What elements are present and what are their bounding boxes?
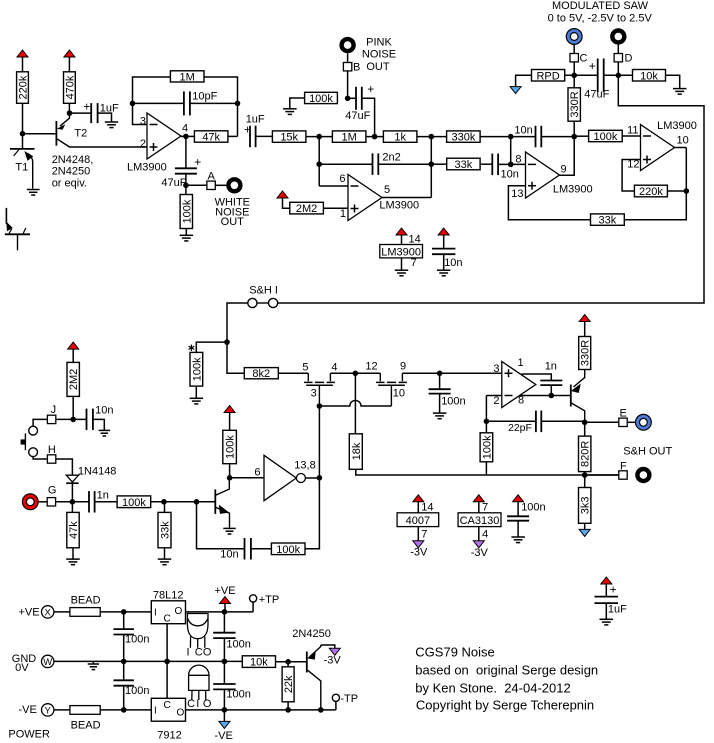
wire to ground symbol	[92, 661, 94, 663]
resistor 1M pink filter	[332, 131, 366, 144]
capacitor 10n timing	[245, 538, 251, 560]
svg-text:I: I	[187, 647, 190, 659]
resistor 2M2	[290, 202, 324, 215]
node +V raw junction	[121, 609, 127, 615]
node G pad	[47, 498, 55, 506]
switch momentary	[21, 426, 38, 456]
wire 10k to ground	[666, 75, 680, 88]
node between FETs	[353, 371, 359, 377]
svg-text:15k: 15k	[280, 132, 298, 144]
svg-text:S&H I: S&H I	[249, 285, 278, 297]
capacitor 22pF	[536, 411, 541, 433]
inverter gate 4007	[264, 455, 305, 500]
svg-text:47uF: 47uF	[345, 110, 370, 122]
label star	[189, 345, 195, 351]
svg-text:G: G	[48, 485, 57, 497]
wire U1 output to 47k	[181, 135, 195, 137]
resistor 22k	[282, 667, 295, 702]
svg-text:I: I	[154, 608, 157, 619]
svg-text:33k: 33k	[599, 215, 617, 227]
svg-text:OUT: OUT	[221, 216, 245, 228]
wire node to T2 base	[23, 133, 56, 135]
node D pad	[614, 54, 622, 62]
connector white noise out jack	[226, 177, 242, 193]
svg-text:12: 12	[627, 159, 639, 171]
resistor RPD	[532, 70, 565, 83]
diode 1N4148	[66, 475, 78, 483]
svg-text:1M: 1M	[180, 71, 195, 83]
svg-text:W: W	[43, 657, 52, 668]
node 100n hold cap	[437, 371, 443, 377]
transistor T2 2N4250 PNP	[56, 113, 147, 147]
svg-text:POWER: POWER	[8, 728, 50, 740]
resistor 1M feedback	[170, 71, 204, 84]
wire node to 33k	[431, 163, 446, 165]
resistor 330k	[447, 131, 481, 144]
wire 330k to 10n	[480, 136, 535, 138]
wire node C down	[573, 62, 575, 75]
svg-text:E: E	[620, 408, 627, 420]
wire pin 12 to 220k	[622, 160, 640, 192]
svg-text:1N4148: 1N4148	[78, 465, 117, 477]
resistor 100k white noise load	[180, 195, 193, 229]
resistor 220k	[17, 72, 30, 104]
wire switch to J pad	[33, 419, 47, 426]
power arrow CA3130	[473, 495, 484, 502]
wire rail to 10k	[241, 660, 243, 662]
wire E pad to jack	[627, 421, 635, 423]
resistor 47k	[194, 131, 228, 144]
ground 10n J	[99, 430, 110, 436]
transistor T1 (noise junction)	[10, 149, 35, 189]
wire node C to 330R	[573, 75, 575, 88]
svg-text:100n: 100n	[125, 634, 149, 646]
wire arrow to 330R	[584, 322, 586, 337]
resistor 33k feedback	[591, 214, 625, 227]
wire RPD to 47uF	[565, 74, 598, 76]
svg-text:BEAD: BEAD	[71, 719, 101, 731]
svg-text:100k: 100k	[276, 544, 300, 556]
svg-text:-3V: -3V	[471, 547, 489, 559]
wire arrow to rail	[224, 604, 226, 612]
svg-text:100n: 100n	[125, 685, 149, 697]
wire +VE to 100n 2	[223, 612, 225, 633]
wire 820R to F line	[584, 472, 586, 475]
power arrow for 2M2	[277, 191, 288, 198]
svg-text:-VE: -VE	[215, 730, 233, 742]
wire 15k to 1M	[306, 136, 333, 138]
wire jack D to node D	[617, 45, 619, 54]
power arrow 10n decoupling	[438, 228, 449, 235]
resistor 100k timing	[271, 543, 305, 556]
regulator 78L12	[151, 601, 185, 625]
svg-text:47uF: 47uF	[584, 88, 609, 100]
svg-text:7912: 7912	[157, 729, 181, 741]
svg-text:330R: 330R	[580, 340, 592, 366]
node A junction	[183, 183, 189, 189]
svg-text:3: 3	[311, 387, 317, 399]
wire arrow to 100k	[229, 413, 231, 431]
ground 10n decoupling	[437, 270, 451, 276]
test point +TP	[250, 595, 257, 602]
svg-text:S&H OUT: S&H OUT	[623, 446, 672, 458]
node E pad	[619, 418, 627, 426]
wire to 22pF	[486, 420, 536, 422]
wire 1k to 330k	[417, 136, 447, 138]
svg-text:100k: 100k	[191, 357, 203, 381]
svg-text:14: 14	[421, 501, 433, 513]
connector X screw terminal	[42, 606, 54, 619]
wire 10n to ground	[93, 419, 104, 430]
svg-text:LM3900: LM3900	[127, 161, 167, 173]
svg-text:470k: 470k	[64, 75, 76, 99]
wire D to S&H link long run	[278, 75, 704, 303]
wire arrow to 470k	[68, 57, 70, 72]
wire gnd to 100n 4	[223, 661, 225, 684]
ground 47k	[66, 559, 80, 565]
svg-text:47k: 47k	[68, 521, 80, 539]
svg-text:22k: 22k	[283, 675, 295, 693]
negative supply arrow 3k3	[579, 529, 590, 536]
svg-text:or eqiv.: or eqiv.	[52, 177, 87, 189]
svg-text:A: A	[208, 170, 216, 182]
node B junction	[345, 96, 351, 102]
node 22pF left	[484, 419, 490, 425]
wire arrow to 10n	[443, 235, 445, 249]
wire down to pin 6 of U2	[318, 137, 320, 186]
svg-text:2N4248,: 2N4248,	[52, 154, 94, 166]
wire node D down	[617, 62, 619, 75]
svg-text:10n: 10n	[444, 257, 462, 269]
node 1n/pin8 junction	[549, 393, 555, 399]
node B pad	[343, 63, 351, 71]
wire to -TP	[335, 702, 337, 710]
svg-text:820R: 820R	[580, 441, 592, 467]
svg-text:78L12: 78L12	[153, 590, 184, 602]
ferrite bead top	[70, 608, 100, 617]
resistor 100k to pin 11	[589, 130, 623, 143]
node 220k/output junction	[684, 188, 690, 194]
svg-text:14: 14	[409, 233, 421, 245]
wire 33k to pin8 10n	[480, 163, 492, 165]
wire node to 100n hold	[439, 373, 441, 389]
svg-text:1M: 1M	[342, 132, 357, 144]
wire arrow to block	[401, 235, 403, 245]
svg-text:D: D	[625, 52, 633, 64]
svg-text:12: 12	[365, 361, 377, 373]
TO-92 outline 78L12	[187, 614, 208, 648]
svg-text:10n: 10n	[501, 169, 519, 181]
power arrow 100n decoupling 2	[513, 495, 524, 502]
node T1 collector junction	[20, 131, 26, 137]
wire ground rail	[54, 660, 243, 662]
wire 10n to 330R node	[541, 136, 574, 138]
op-amp U2 LM3900 pink noise	[348, 175, 382, 221]
op-amp U5 CA3130 buffer	[502, 362, 536, 408]
wire between link pads	[257, 302, 269, 304]
wire 33k to ground	[164, 548, 166, 559]
node 10n junction	[508, 134, 514, 140]
power arrow 2M2 input	[68, 342, 79, 349]
wire 47uF to 1M/1k node	[362, 98, 375, 136]
wire FET1 drain to FET2 source	[330, 372, 380, 374]
node 2n2 left	[316, 161, 322, 167]
svg-text:C: C	[164, 700, 171, 711]
wire 100k top	[485, 421, 487, 433]
wire gnd to 100n 3	[123, 661, 125, 680]
ground pink load	[283, 109, 297, 115]
svg-text:10pF: 10pF	[192, 90, 217, 102]
wire 100k to ground	[290, 98, 305, 108]
svg-text:100k: 100k	[481, 435, 493, 459]
svg-text:2N4250: 2N4250	[292, 628, 331, 640]
svg-text:33k: 33k	[160, 521, 172, 539]
negative supply arrow RPD	[510, 87, 521, 94]
svg-text:+: +	[83, 99, 90, 113]
svg-text:BEAD: BEAD	[71, 594, 101, 606]
wire FET node down to 18k	[354, 373, 356, 434]
svg-text:J: J	[51, 404, 57, 416]
resistor 820R	[579, 436, 592, 472]
ground at 1uF	[105, 122, 118, 128]
node gnd junction 3	[222, 659, 228, 665]
wire emitter to -3V arrow	[321, 645, 335, 648]
svg-text:10n: 10n	[95, 405, 113, 417]
svg-text:2: 2	[493, 395, 499, 407]
node 15k/1M junction	[316, 134, 322, 140]
svg-text:+TP: +TP	[259, 594, 279, 606]
wire 100n 2 to gnd	[223, 638, 225, 661]
wire 100k to ground	[185, 229, 187, 236]
wire 78L12 to +TP	[186, 611, 254, 613]
svg-text:Copyright by Serge Tcherepnin: Copyright by Serge Tcherepnin	[416, 698, 594, 713]
wire 22pF to E node	[541, 420, 584, 422]
wire 47uF to 100k	[185, 174, 187, 195]
wire 10pF to right node	[190, 102, 238, 104]
capacitor 10n decoupling	[432, 249, 455, 255]
node -VE reg junction	[222, 707, 228, 713]
ground 33k	[158, 559, 171, 565]
ground below T1	[27, 190, 40, 196]
svg-text:-VE: -VE	[19, 704, 37, 716]
svg-text:100k: 100k	[593, 131, 617, 143]
wire to pin 6	[319, 185, 348, 187]
capacitor 10pF	[184, 91, 190, 115]
svg-text:X: X	[45, 607, 52, 618]
svg-text:O: O	[203, 647, 212, 659]
svg-text:C: C	[187, 698, 195, 710]
wire 47k to ground	[72, 548, 74, 559]
svg-text:OUT: OUT	[366, 61, 390, 73]
ground 1uF bottom	[600, 619, 614, 625]
wire to 2n2	[319, 163, 372, 165]
capacitor 1n	[89, 491, 95, 512]
wire arrow to CA3130 block	[478, 502, 480, 513]
node S&H input junction	[224, 339, 230, 345]
svg-text:by Ken Stone. 24-04-2012: by Ken Stone. 24-04-2012	[415, 681, 570, 696]
svg-text:I: I	[154, 706, 157, 717]
svg-text:6: 6	[254, 467, 260, 479]
resistor 330R saw	[568, 88, 581, 121]
svg-text:O: O	[203, 698, 212, 710]
svg-text:11: 11	[627, 124, 638, 136]
svg-text:O: O	[177, 708, 185, 719]
wire arrow to 2M2	[72, 349, 74, 362]
ground 100k star	[190, 398, 204, 404]
node Q4 collector	[318, 707, 324, 713]
node Q2 base junction	[194, 499, 200, 505]
wire J pad to 10n	[56, 418, 87, 420]
wire FET2 drain to op-amp	[402, 372, 501, 374]
svg-text:LM3900: LM3900	[657, 120, 697, 132]
capacitor 1uF coupling	[250, 126, 256, 148]
node 33k junction	[161, 499, 167, 505]
connector G input red	[22, 494, 38, 510]
svg-text:based on original Serge desig: based on original Serge design	[415, 663, 598, 678]
link pad right	[269, 298, 278, 307]
capacitor 100n hold	[429, 389, 451, 393]
wire to node F	[585, 474, 619, 476]
wire bead to 7912	[100, 709, 151, 711]
capacitor 10n J	[87, 409, 93, 431]
wire CA3130 to -3V	[478, 527, 480, 541]
svg-text:18k: 18k	[351, 442, 363, 460]
svg-text:100k: 100k	[122, 497, 146, 509]
svg-text:2n2: 2n2	[382, 151, 400, 163]
svg-text:F: F	[620, 460, 627, 472]
wire U2 output up to 33k node	[382, 197, 431, 199]
svg-text:RPD: RPD	[536, 70, 559, 82]
node H pad	[47, 455, 55, 463]
svg-text:7: 7	[411, 257, 417, 269]
svg-text:3k3: 3k3	[580, 497, 592, 515]
svg-text:+VE: +VE	[19, 606, 40, 618]
wire bead to 78L12	[100, 611, 151, 613]
svg-text:MODULATED SAW: MODULATED SAW	[552, 0, 649, 12]
wire pin 1 to 1n	[522, 374, 552, 380]
resistor 15k	[272, 131, 306, 144]
negative supply arrow -3V	[329, 648, 340, 655]
wire 10n to ground	[443, 254, 445, 270]
wire pin13 to 33k feedback	[508, 186, 590, 220]
wire U1 out down to 47uF	[185, 136, 187, 168]
resistor 100k pink load	[305, 92, 338, 105]
wire 3k3 to -VE arrow	[584, 523, 586, 529]
ground LM3900 block	[395, 270, 408, 276]
svg-text:100k: 100k	[225, 435, 237, 459]
wire -VE rail	[186, 709, 336, 711]
wire 2n2 to 33k node	[378, 163, 431, 165]
node C pad	[570, 54, 578, 62]
wire to 10pF	[133, 102, 184, 104]
svg-text:47uF: 47uF	[161, 177, 186, 189]
svg-text:100k: 100k	[309, 93, 333, 105]
svg-text:330k: 330k	[451, 132, 475, 144]
wire 220k to output net	[667, 190, 686, 192]
node feedback left	[130, 101, 136, 107]
TO-92 outline 7912	[189, 665, 209, 700]
wire node to 100k star	[196, 342, 227, 352]
svg-text:100n: 100n	[226, 638, 250, 650]
node gnd junction 1	[121, 659, 127, 665]
node 330R bottom	[571, 134, 577, 140]
svg-text:5: 5	[302, 361, 308, 373]
svg-text:8: 8	[518, 395, 524, 407]
node 22k junction	[285, 659, 291, 665]
wire 2M2 to pin 1	[323, 207, 348, 209]
wire 78L12 C to ground rail	[166, 624, 168, 662]
svg-text:100n: 100n	[226, 689, 250, 701]
svg-text:O: O	[175, 606, 183, 617]
node +VE reg junction	[222, 609, 228, 615]
power arrow 1uF	[601, 577, 612, 584]
link pad left	[248, 298, 257, 307]
wire 1n to 100k	[95, 501, 118, 503]
node A pad	[207, 181, 215, 189]
capacitor 100n 1	[114, 629, 134, 634]
capacitor 47uF saw	[598, 59, 604, 93]
op-amp U4 LM3900 saw buffer	[641, 125, 675, 171]
resistor 47k	[67, 512, 80, 547]
resistor 100k input	[117, 496, 151, 509]
wire pin 2 down to 22pF	[485, 396, 487, 422]
capacitor 100n 2	[213, 633, 235, 638]
svg-text:NOISE: NOISE	[362, 49, 396, 61]
node U1 output	[183, 134, 189, 140]
wire 7912 C to ground rail	[166, 661, 168, 698]
wire arrow to 2M2	[283, 198, 290, 208]
wire 10n to base node	[197, 502, 245, 549]
svg-text:1k: 1k	[394, 132, 406, 144]
capacitor 100n 3	[114, 680, 134, 685]
svg-text:100n: 100n	[441, 396, 465, 408]
svg-text:+VE: +VE	[215, 585, 236, 597]
svg-text:2M2: 2M2	[296, 203, 317, 215]
power arrow 100k inverter	[224, 406, 235, 413]
connector Y screw terminal	[42, 704, 54, 717]
wire pin 8 to transistor base	[520, 395, 571, 397]
power arrow 330R	[579, 315, 590, 322]
svg-text:C: C	[580, 52, 588, 64]
wire 100k to 10n	[251, 548, 272, 550]
node G junction	[70, 499, 76, 505]
wire jack C to node C	[573, 44, 575, 53]
wire pin 2 stub	[486, 395, 501, 397]
svg-text:C: C	[164, 614, 171, 625]
wire 100k to inverter node	[229, 464, 231, 478]
wire switch to H pad	[33, 457, 47, 459]
wire 1uF to ground	[98, 113, 112, 122]
svg-text:22pF: 22pF	[508, 422, 532, 434]
wire node to 22k	[287, 662, 289, 667]
wire jack to node B	[347, 53, 349, 62]
transistor Q2 NPN	[215, 478, 229, 528]
wire 100n to ground	[517, 521, 519, 537]
wire to +TP	[252, 602, 254, 612]
test point -TP	[332, 694, 339, 701]
power arrow 4007	[413, 495, 424, 502]
svg-text:2: 2	[140, 138, 146, 150]
node feedback right	[235, 101, 241, 107]
wire 18k to F line	[356, 469, 619, 475]
svg-text:10: 10	[393, 388, 405, 400]
connector S&H out E blue	[636, 414, 652, 430]
node F junction	[582, 472, 588, 478]
power arrow +VE rail	[220, 597, 231, 604]
wire 1M to output node	[204, 77, 238, 136]
svg-text:4: 4	[182, 122, 188, 134]
wire 100n to ground	[439, 393, 441, 412]
